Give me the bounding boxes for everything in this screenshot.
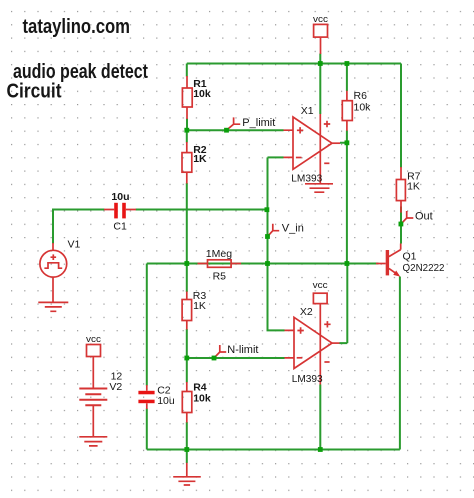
svg-text:vcc: vcc <box>313 280 329 290</box>
wire Q1 emitter vertical <box>399 277 401 450</box>
vcc symbol X2 <box>313 293 327 303</box>
svg-text:N-limit: N-limit <box>227 344 258 356</box>
svg-text:1K: 1K <box>193 153 207 165</box>
resistor R2 <box>182 142 192 184</box>
wire X1 minus input horizontal <box>268 156 284 158</box>
wire R6 bottom <box>346 131 348 143</box>
battery V2 <box>79 389 107 437</box>
resistor R1 <box>182 76 192 119</box>
svg-text:P_limit: P_limit <box>242 117 275 129</box>
vcc symbol top <box>314 24 328 54</box>
resistor R4 <box>182 382 192 423</box>
svg-text:1K: 1K <box>193 300 206 312</box>
junction R6 top <box>345 61 350 66</box>
junction R1 bottom <box>184 128 189 133</box>
svg-text:V2: V2 <box>109 381 122 393</box>
ground under V1 <box>38 302 68 311</box>
svg-text:C1: C1 <box>113 220 127 232</box>
junction bottom rail X2 <box>318 447 323 452</box>
junction P_limit <box>224 128 229 133</box>
wire R3 bottom <box>186 329 188 358</box>
wire X1 output <box>340 143 347 264</box>
wire top rail <box>187 63 401 65</box>
transistor Q1 <box>376 244 401 277</box>
flag Out <box>401 211 413 224</box>
svg-text:V_in: V_in <box>282 222 304 234</box>
wire R1 top stub <box>186 64 188 77</box>
wire vcc top lead <box>319 54 321 64</box>
op-amp X1 <box>284 114 341 183</box>
resistor R6 <box>342 91 352 131</box>
resistor R3 <box>182 292 192 330</box>
wire R2 bottom vertical <box>186 183 188 264</box>
svg-text:LM393: LM393 <box>291 173 322 185</box>
wire R4 top <box>186 358 188 383</box>
svg-text:10k: 10k <box>354 101 372 113</box>
flag N-limit <box>214 345 226 358</box>
wire bottom rail <box>147 449 400 451</box>
svg-text:vcc: vcc <box>313 14 329 24</box>
flag P_limit <box>227 117 241 130</box>
svg-text:10u: 10u <box>111 191 129 203</box>
ground bottom <box>173 463 201 485</box>
wire ground stub bottom <box>186 450 188 464</box>
wire R4 bottom <box>186 422 188 450</box>
junction Out <box>399 222 404 227</box>
wire X1 supply <box>319 64 321 115</box>
wire X2 output <box>340 264 348 344</box>
svg-text:10k: 10k <box>193 393 211 405</box>
wire C1 right <box>136 209 268 211</box>
svg-text:X1: X1 <box>301 105 314 117</box>
op-amp X2 <box>285 304 340 385</box>
wire mid rail <box>147 263 379 265</box>
svg-text:1Meg: 1Meg <box>206 248 232 260</box>
svg-text:10k: 10k <box>193 88 211 100</box>
svg-text:10u: 10u <box>157 395 175 407</box>
junction X1 output <box>345 140 350 145</box>
svg-text:Circuit: Circuit <box>7 81 62 103</box>
svg-text:vcc: vcc <box>86 334 102 344</box>
wire C2 top <box>146 264 148 386</box>
source V1 <box>40 243 67 302</box>
junction mid rail right <box>345 261 350 266</box>
resistor R7 <box>396 167 405 213</box>
wire R1 bottom to junction <box>186 119 188 132</box>
svg-text:Q1: Q1 <box>403 251 417 263</box>
svg-text:Q2N2222: Q2N2222 <box>403 262 445 274</box>
vcc symbol V2 <box>87 345 101 389</box>
svg-text:LM393: LM393 <box>292 373 323 385</box>
wire C2 bottom <box>146 409 148 450</box>
svg-text:R6: R6 <box>354 90 368 102</box>
junction top vcc <box>318 61 323 66</box>
wire R6 top <box>346 64 348 92</box>
svg-text:tataylino.com: tataylino.com <box>23 16 131 38</box>
capacitor C1 <box>104 203 136 219</box>
wire C1 left <box>53 210 105 244</box>
junction R3 bottom <box>183 255 185 257</box>
svg-text:1K: 1K <box>407 180 420 192</box>
junction mid rail left <box>184 261 189 266</box>
junction C1 tap <box>265 207 270 212</box>
wire N-limit net <box>187 357 285 359</box>
ground under X1 <box>305 184 333 192</box>
junction V_in tap <box>265 234 270 239</box>
svg-text:audio peak detect: audio peak detect <box>13 61 148 83</box>
svg-text:Out: Out <box>415 211 433 223</box>
junction bottom rail left <box>184 447 189 452</box>
ground under V2 <box>79 437 107 446</box>
wire X1 minus input vertical <box>267 157 269 263</box>
wire P_limit net <box>187 129 284 131</box>
wire X2 supply bottom <box>319 385 321 450</box>
wire R7 bottom to Q1 <box>400 207 402 244</box>
capacitor C2 <box>138 385 154 409</box>
svg-text:R5: R5 <box>213 271 227 283</box>
wire X2 plus input <box>268 264 285 331</box>
wire R2 top <box>186 130 188 142</box>
svg-text:V1: V1 <box>68 238 81 250</box>
junction N-limit <box>212 356 217 361</box>
flag V_in <box>268 224 280 237</box>
wire to R3 <box>186 264 188 293</box>
wire R7 top <box>400 64 402 168</box>
svg-text:X2: X2 <box>300 306 313 318</box>
resistor R5 <box>198 260 242 268</box>
junction mid rail center <box>265 261 270 266</box>
